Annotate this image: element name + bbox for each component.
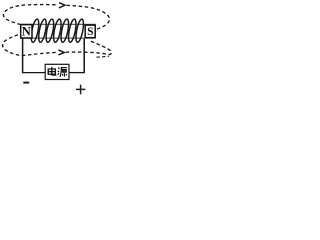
wire (bottom right horizontal to power box) [69, 72, 85, 74]
coil turn 6 [67, 19, 77, 43]
svg-text:N: N [22, 24, 31, 38]
stray lower dash of right field curl [97, 55, 110, 58]
power supply box [45, 64, 69, 79]
coil turn 1 [30, 19, 40, 43]
coil turn 4 [52, 19, 62, 43]
field line top ellipse (dashed) [3, 5, 57, 25]
solenoid core bar [21, 24, 96, 38]
power supply label 电 [48, 67, 56, 75]
coil turn 3 [45, 19, 55, 43]
svg-text:S: S [87, 26, 93, 38]
wire (bottom left horizontal to power box) [22, 72, 45, 74]
wire (left vertical from coil to bottom) [22, 38, 24, 72]
S pole box [85, 25, 95, 38]
arrow on top field line [59, 3, 65, 8]
negative terminal mark [23, 82, 29, 84]
coil turn 7 [74, 19, 84, 43]
power supply label 源 [58, 68, 67, 77]
arrow on bottom field line [58, 50, 64, 55]
N pole box [21, 25, 32, 38]
coil turn 5 [60, 19, 70, 43]
wire (right vertical from coil down) [83, 39, 85, 73]
coil turn 2 [37, 19, 47, 43]
field line bottom ellipse (dashed) [3, 33, 57, 55]
positive terminal mark [76, 85, 86, 95]
